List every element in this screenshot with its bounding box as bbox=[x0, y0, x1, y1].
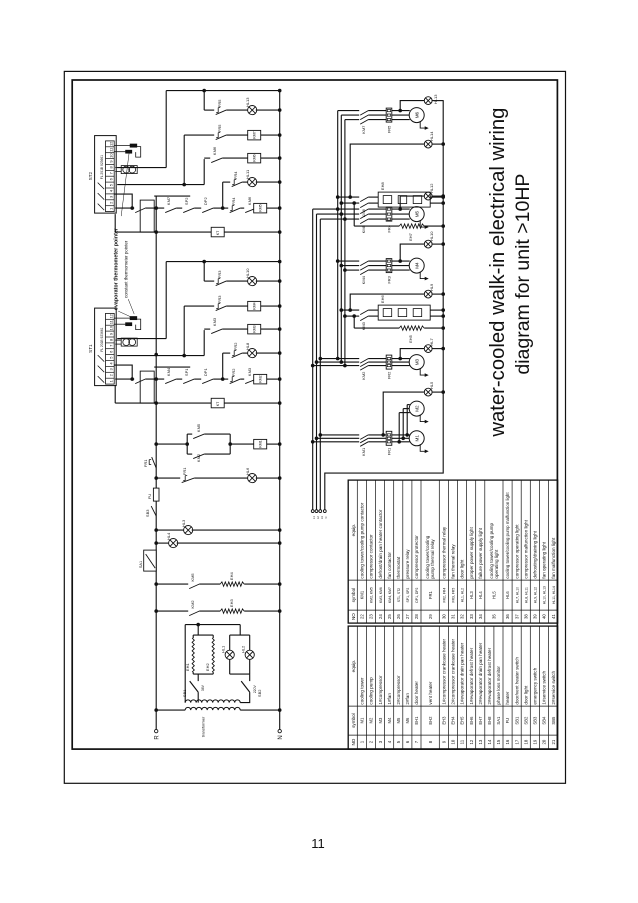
svg-text:HL1: HL1 bbox=[221, 645, 226, 653]
wire lamp loop bbox=[230, 635, 250, 674]
svg-text:KM3: KM3 bbox=[247, 367, 252, 376]
thermal relay FR3 bbox=[386, 259, 392, 273]
wire secondary to heater loops bbox=[185, 625, 240, 703]
svg-text:KM4: KM4 bbox=[166, 367, 171, 376]
wire M1 M2 branch verticals KM1 bbox=[311, 433, 386, 444]
svg-text:R: R bbox=[155, 735, 161, 740]
defrost contactor coil branch KM6 bbox=[204, 146, 280, 163]
sensor probes of ST1 (cells 10-12) bbox=[114, 317, 141, 330]
thermal relay FR1 bbox=[386, 431, 392, 445]
svg-text:EH3: EH3 bbox=[229, 599, 234, 608]
svg-text:KM4: KM4 bbox=[361, 275, 366, 284]
svg-text:220V: 220V bbox=[253, 684, 257, 693]
lamp HL6 malfunction light branch bbox=[156, 467, 280, 483]
svg-text:ST1, ST2: ST1, ST2 bbox=[397, 588, 401, 602]
label evaporator thermometer pointer bbox=[114, 227, 131, 316]
svg-text:pump thermal relay: pump thermal relay bbox=[430, 539, 435, 579]
svg-text:EH5: EH5 bbox=[408, 334, 413, 343]
contactor contacts KM7 bbox=[360, 111, 368, 134]
svg-text:25: 25 bbox=[387, 614, 392, 619]
svg-text:compressor thermal relay: compressor thermal relay bbox=[442, 526, 447, 579]
resistor EH7 drain pan heater 2 bbox=[352, 201, 443, 241]
svg-text:SP1, SP2: SP1, SP2 bbox=[406, 588, 410, 603]
svg-text:HL4: HL4 bbox=[166, 532, 171, 540]
motor M3 compressor 1 bbox=[409, 355, 429, 377]
svg-text:emergency switch: emergency switch bbox=[533, 667, 538, 704]
resistor EH1 door heater bbox=[185, 638, 194, 672]
svg-text:KM5: KM5 bbox=[196, 423, 201, 432]
lamp HL9 defrosting light 1 bbox=[348, 283, 443, 312]
motor M5 compressor 2 bbox=[409, 207, 429, 229]
sensor coil of ST2 (cells 7-8) bbox=[115, 166, 137, 174]
svg-text:SB1: SB1 bbox=[514, 716, 519, 725]
svg-text:HL10, HL13: HL10, HL13 bbox=[543, 586, 547, 604]
svg-text:DP2: DP2 bbox=[203, 197, 208, 206]
svg-text:M3: M3 bbox=[415, 358, 420, 365]
svg-text:symbol: symbol bbox=[351, 713, 356, 728]
motor M1 cooling tower bbox=[409, 431, 429, 453]
svg-text:EH4: EH4 bbox=[229, 572, 234, 581]
svg-text:defrost/drain pan heater conta: defrost/drain pan heater contactor bbox=[378, 509, 383, 578]
connector block 2# bbox=[140, 200, 154, 232]
svg-text:KM3, KM6: KM3, KM6 bbox=[379, 587, 383, 603]
svg-text:KM3: KM3 bbox=[361, 321, 366, 330]
svg-text:phase loss monitor: phase loss monitor bbox=[496, 666, 501, 705]
svg-text:FR5: FR5 bbox=[387, 125, 392, 133]
svg-text:KM7: KM7 bbox=[253, 131, 257, 138]
svg-text:HL1, HL2: HL1, HL2 bbox=[461, 588, 465, 602]
lamp HL14 defrosting light 2 bbox=[348, 131, 443, 199]
svg-text:failure power supply light: failure power supply light bbox=[478, 527, 483, 578]
svg-text:ST2: ST2 bbox=[88, 171, 93, 180]
svg-text:24: 24 bbox=[378, 614, 383, 619]
svg-text:cooling tower: cooling tower bbox=[360, 677, 365, 705]
wire M6 branch verticals bbox=[338, 111, 410, 120]
svg-text:30: 30 bbox=[442, 614, 447, 619]
svg-text:M5: M5 bbox=[396, 717, 401, 723]
svg-text:HL3: HL3 bbox=[469, 591, 474, 599]
svg-text:39: 39 bbox=[533, 614, 538, 619]
switch SB1 36V bbox=[182, 674, 205, 703]
svg-text:ST1: ST1 bbox=[88, 344, 93, 353]
fan contactor coil branch KM7 bbox=[184, 124, 280, 140]
svg-text:36V: 36V bbox=[201, 684, 205, 691]
svg-text:1#fan: 1#fan bbox=[387, 693, 392, 705]
svg-text:2#fan: 2#fan bbox=[405, 693, 410, 705]
svg-text:FR2: FR2 bbox=[387, 371, 392, 379]
svg-text:FL 201B 923661: FL 201B 923661 bbox=[100, 155, 104, 179]
transformer T1 bbox=[156, 700, 280, 737]
svg-text:HL6: HL6 bbox=[245, 467, 250, 475]
switch SB3 emergency switch on rail bbox=[145, 506, 156, 517]
svg-text:2#compressor: 2#compressor bbox=[396, 675, 401, 705]
lamp HL2 door light bbox=[241, 635, 255, 674]
svg-text:fan contactor: fan contactor bbox=[387, 552, 392, 579]
fan contactor coil branch KM4 bbox=[184, 295, 280, 311]
svg-text:1#compressor crankcase heater: 1#compressor crankcase heater bbox=[442, 639, 447, 705]
timer KT bbox=[115, 385, 280, 408]
svg-text:FR1: FR1 bbox=[182, 467, 187, 475]
contactor contacts KM4 bbox=[360, 261, 368, 284]
svg-text:EH1: EH1 bbox=[414, 716, 419, 725]
wire branch feeder 2# bbox=[117, 89, 281, 185]
fuse FU on rail bbox=[147, 488, 159, 501]
svg-text:HL5: HL5 bbox=[429, 381, 434, 389]
svg-text:HL5: HL5 bbox=[492, 591, 497, 599]
svg-text:15: 15 bbox=[496, 739, 501, 744]
timer KT bbox=[115, 214, 280, 237]
heater EH6 defrost heater 1 bbox=[378, 295, 443, 321]
svg-text:20: 20 bbox=[542, 739, 547, 744]
lamp HL10 fan operating light 1 bbox=[398, 231, 443, 263]
svg-text:evaporator thermometer pointer: evaporator thermometer pointer bbox=[114, 227, 120, 310]
motor M2 cooling pump bbox=[409, 401, 429, 423]
svg-text:SP1: SP1 bbox=[184, 368, 189, 376]
svg-text:32: 32 bbox=[460, 614, 465, 619]
svg-text:22: 22 bbox=[360, 614, 365, 619]
svg-text:KM2, KM5: KM2, KM5 bbox=[370, 587, 374, 603]
wire to motors M1 M2 bbox=[392, 405, 410, 444]
svg-text:cooling tower/cooling pump con: cooling tower/cooling pump contactor bbox=[360, 502, 365, 578]
svg-text:door light: door light bbox=[523, 685, 528, 705]
thermal relay FR5 bbox=[386, 108, 392, 122]
svg-text:10: 10 bbox=[108, 325, 113, 330]
svg-text:FR4: FR4 bbox=[233, 171, 238, 179]
wire M4 branch verticals bbox=[336, 259, 410, 272]
svg-text:FR3, FR5: FR3, FR5 bbox=[452, 588, 456, 603]
main control branch 2# bbox=[115, 196, 280, 213]
svg-text:EH3: EH3 bbox=[442, 716, 447, 725]
sensor probes of ST2 (cells 10-12) bbox=[114, 144, 141, 157]
svg-text:16: 16 bbox=[505, 739, 510, 744]
contactor contacts KM3 defrost 1 bbox=[340, 308, 379, 330]
svg-text:10: 10 bbox=[108, 153, 113, 158]
wire branch feeder 1# bbox=[117, 260, 281, 356]
resistor EH2 vent heater bbox=[205, 638, 214, 672]
motor M4 fan 1 bbox=[409, 258, 429, 280]
contact KM2 aux bbox=[156, 600, 199, 616]
motor M6 fan 2 bbox=[409, 108, 429, 130]
svg-text:equip.: equip. bbox=[351, 660, 356, 673]
resistor EH4 crankcase heater bbox=[199, 572, 280, 587]
svg-text:FR4: FR4 bbox=[231, 197, 236, 205]
svg-text:HL14: HL14 bbox=[429, 131, 434, 141]
fan malfunction lamp branch HL10 bbox=[204, 268, 280, 286]
svg-text:defrosting/draining light: defrosting/draining light bbox=[533, 530, 538, 578]
wire M5 branch verticals from bus bbox=[313, 209, 410, 219]
svg-text:2#service switch: 2#service switch bbox=[551, 670, 556, 704]
svg-text:1#service switch: 1#service switch bbox=[542, 670, 547, 704]
svg-text:SP2: SP2 bbox=[184, 197, 189, 205]
svg-text:HL7: HL7 bbox=[429, 337, 434, 345]
svg-text:11: 11 bbox=[311, 836, 325, 851]
svg-text:37: 37 bbox=[514, 614, 519, 619]
svg-text:FR5: FR5 bbox=[217, 99, 222, 107]
svg-text:1#evaporator drain pan heater: 1#evaporator drain pan heater bbox=[460, 642, 465, 704]
svg-text:SB1: SB1 bbox=[182, 689, 187, 697]
svg-text:SB4: SB4 bbox=[542, 716, 547, 725]
resistor EH3 crankcase heater bbox=[199, 599, 280, 614]
wire M3 branch verticals bbox=[311, 357, 410, 368]
svg-text:HL13: HL13 bbox=[245, 97, 250, 107]
svg-text:FR1: FR1 bbox=[143, 459, 148, 467]
thermostat ST1 terminal strip bbox=[88, 308, 116, 386]
phase loss monitor SA1 bbox=[139, 550, 156, 571]
svg-text:FR3: FR3 bbox=[217, 295, 222, 303]
lamp HL13 fan operating light 2 bbox=[398, 94, 443, 113]
svg-text:fan malfunction light: fan malfunction light bbox=[551, 537, 556, 579]
svg-text:SA1: SA1 bbox=[496, 716, 501, 725]
svg-text:HL7, HL10: HL7, HL10 bbox=[515, 587, 519, 603]
svg-text:EH2: EH2 bbox=[205, 663, 210, 672]
svg-text:KM5: KM5 bbox=[259, 204, 263, 211]
svg-text:33: 33 bbox=[469, 614, 474, 619]
svg-text:FR1: FR1 bbox=[428, 590, 433, 599]
svg-text:27: 27 bbox=[405, 614, 410, 619]
svg-text:compressor contactor: compressor contactor bbox=[369, 534, 374, 579]
thermostat ST2 terminal strip bbox=[88, 136, 116, 214]
svg-text:operating light: operating light bbox=[494, 549, 499, 579]
svg-text:KM3: KM3 bbox=[212, 317, 217, 326]
svg-text:cooling tower/cooling pump mal: cooling tower/cooling pump malfunction l… bbox=[505, 492, 510, 579]
switch SB2 220V bbox=[240, 674, 262, 703]
svg-text:KT: KT bbox=[216, 231, 220, 235]
svg-text:HL2: HL2 bbox=[241, 645, 246, 653]
svg-text:19: 19 bbox=[533, 739, 538, 744]
svg-text:12: 12 bbox=[108, 313, 113, 318]
svg-text:M4: M4 bbox=[387, 717, 392, 723]
svg-text:2#evaporator defrost heater: 2#evaporator defrost heater bbox=[487, 647, 492, 704]
svg-text:40: 40 bbox=[542, 614, 547, 619]
node N supply terminal bbox=[278, 729, 284, 739]
svg-text:21: 21 bbox=[551, 739, 556, 744]
svg-text:KM2: KM2 bbox=[259, 375, 263, 382]
svg-text:SB2: SB2 bbox=[257, 689, 262, 697]
svg-text:proper power supply light: proper power supply light bbox=[469, 527, 474, 579]
svg-text:HL10: HL10 bbox=[245, 268, 250, 278]
svg-text:KM2: KM2 bbox=[190, 600, 195, 609]
svg-text:23: 23 bbox=[369, 614, 374, 619]
svg-text:13: 13 bbox=[478, 739, 483, 744]
svg-text:12: 12 bbox=[108, 141, 113, 146]
svg-text:EH8: EH8 bbox=[380, 182, 385, 191]
wire sub bus 3 bbox=[344, 120, 346, 366]
svg-text:vent heater: vent heater bbox=[428, 681, 433, 704]
svg-text:door/vent heater switch: door/vent heater switch bbox=[514, 657, 519, 705]
svg-text:N: N bbox=[324, 517, 328, 519]
svg-text:35: 35 bbox=[492, 614, 497, 619]
svg-text:M2: M2 bbox=[369, 717, 374, 723]
svg-text:HL11, HL14: HL11, HL14 bbox=[552, 586, 556, 604]
svg-text:HL13: HL13 bbox=[433, 94, 438, 104]
svg-text:SB2: SB2 bbox=[523, 716, 528, 725]
node R supply terminal bbox=[155, 729, 161, 739]
contact KM5 aux bbox=[156, 573, 199, 589]
svg-text:thermostat: thermostat bbox=[396, 556, 401, 578]
svg-text:constant thermometer pointer: constant thermometer pointer bbox=[124, 240, 129, 298]
svg-text:KM3: KM3 bbox=[253, 325, 257, 332]
lamp HL4 failure power supply light bbox=[156, 532, 280, 548]
svg-text:FR2: FR2 bbox=[231, 368, 236, 376]
svg-text:EH6: EH6 bbox=[380, 295, 385, 304]
svg-text:10: 10 bbox=[451, 739, 456, 744]
lamp HL1 door light bbox=[221, 635, 235, 674]
svg-text:26: 26 bbox=[396, 614, 401, 619]
svg-text:door light: door light bbox=[460, 559, 465, 579]
connector block 1# bbox=[140, 371, 154, 403]
contactor coil KM1 branch with parallel contacts KM2 KM5 bbox=[156, 423, 280, 462]
wire strip cell4 to main branch 1# bbox=[114, 365, 132, 379]
svg-text:EH6: EH6 bbox=[469, 716, 474, 725]
resistor EH5 drain pan heater 1 bbox=[352, 314, 443, 343]
svg-text:KM7: KM7 bbox=[361, 125, 366, 134]
svg-text:HL8, HL11: HL8, HL11 bbox=[524, 587, 528, 603]
svg-text:KM1: KM1 bbox=[360, 590, 365, 599]
svg-text:HL11: HL11 bbox=[245, 169, 250, 179]
svg-text:41: 41 bbox=[551, 614, 556, 619]
svg-text:NO: NO bbox=[351, 613, 356, 620]
svg-text:HL9, HL12: HL9, HL12 bbox=[534, 587, 538, 603]
svg-text:KM2: KM2 bbox=[196, 453, 201, 462]
svg-text:KM1: KM1 bbox=[259, 440, 263, 447]
wire sub bus 1 bbox=[337, 111, 339, 360]
component legend table bbox=[348, 626, 557, 749]
contactor contacts KM2 bbox=[360, 359, 368, 380]
lamp HL3 proper power supply light bbox=[156, 519, 280, 535]
svg-text:2#compressor crankcase heater: 2#compressor crankcase heater bbox=[451, 639, 456, 705]
svg-text:FU: FU bbox=[147, 494, 152, 499]
lamp branch HL8 compressor malfunction bbox=[223, 342, 280, 379]
svg-text:KM6: KM6 bbox=[361, 208, 366, 217]
svg-text:HL4: HL4 bbox=[478, 591, 483, 599]
svg-text:31: 31 bbox=[451, 614, 456, 619]
svg-text:HL8: HL8 bbox=[245, 342, 250, 350]
svg-text:HL9: HL9 bbox=[429, 283, 434, 291]
svg-text:NO: NO bbox=[351, 738, 356, 745]
thermal contact FR1 on rail bbox=[143, 457, 156, 468]
main control branch 1# bbox=[115, 367, 280, 384]
svg-text:FR1: FR1 bbox=[387, 447, 392, 455]
svg-text:EH5: EH5 bbox=[460, 716, 465, 725]
title bbox=[487, 108, 534, 438]
wire heater loop bbox=[193, 635, 213, 674]
thermal relay FR4 bbox=[386, 207, 392, 221]
svg-text:KM4, KM7: KM4, KM7 bbox=[388, 587, 392, 603]
svg-text:M5: M5 bbox=[415, 210, 420, 217]
svg-text:KM4: KM4 bbox=[253, 302, 257, 309]
svg-text:HL6: HL6 bbox=[505, 591, 510, 599]
svg-text:FR3: FR3 bbox=[387, 275, 392, 283]
wire N rail bbox=[279, 90, 281, 729]
svg-text:HL12: HL12 bbox=[429, 183, 434, 193]
wire strip stub 1# bbox=[154, 366, 190, 368]
contactor contacts KM5 bbox=[360, 209, 368, 233]
svg-text:M6: M6 bbox=[405, 717, 410, 723]
svg-text:17: 17 bbox=[514, 739, 519, 744]
svg-text:KT: KT bbox=[216, 402, 220, 406]
svg-text:fan thermal relay: fan thermal relay bbox=[451, 544, 456, 579]
svg-text:equip.: equip. bbox=[351, 524, 356, 537]
svg-text:M4: M4 bbox=[415, 262, 420, 269]
heater EH8 defrost heater 2 bbox=[378, 182, 443, 208]
svg-text:EH8: EH8 bbox=[487, 716, 492, 725]
svg-text:symbol: symbol bbox=[351, 588, 356, 603]
svg-text:KM5: KM5 bbox=[190, 573, 195, 582]
defrost contactor coil branch KM3 bbox=[204, 317, 280, 334]
svg-text:compressor operating light: compressor operating light bbox=[514, 524, 519, 579]
svg-text:FR2: FR2 bbox=[233, 342, 238, 350]
label constant thermometer pointer bbox=[121, 152, 134, 314]
thermal relay FR2 bbox=[386, 355, 392, 369]
svg-text:11: 11 bbox=[460, 739, 465, 744]
svg-text:SA1: SA1 bbox=[139, 561, 143, 568]
svg-text:FR2, FR4: FR2, FR4 bbox=[443, 588, 447, 603]
svg-text:M6: M6 bbox=[415, 111, 420, 118]
svg-text:EH1: EH1 bbox=[185, 663, 190, 672]
contactor contacts KM6 defrost 2 bbox=[336, 195, 378, 217]
contactor contacts KM1 bbox=[360, 435, 368, 456]
svg-text:KM6: KM6 bbox=[212, 146, 217, 155]
wire three-phase bus L2 bbox=[316, 214, 318, 510]
svg-text:transformer: transformer bbox=[201, 716, 206, 737]
svg-text:HL3: HL3 bbox=[181, 519, 186, 527]
lamp HL12 compressor operating light 2 bbox=[398, 183, 443, 211]
svg-text:KM1: KM1 bbox=[361, 447, 366, 456]
svg-text:1#compressor: 1#compressor bbox=[378, 675, 383, 705]
svg-text:DP1, DP2: DP1, DP2 bbox=[415, 587, 419, 602]
svg-text:14: 14 bbox=[487, 739, 492, 744]
svg-text:EH2: EH2 bbox=[428, 716, 433, 725]
svg-text:1#evaporator defrost heater: 1#evaporator defrost heater bbox=[469, 647, 474, 704]
svg-text:compressor protector: compressor protector bbox=[414, 535, 419, 579]
svg-text:HL10: HL10 bbox=[429, 231, 434, 241]
svg-text:M1: M1 bbox=[360, 717, 365, 723]
wire three-phase bus L1 bbox=[312, 209, 314, 510]
lamp HL7 compressor operating light bbox=[398, 337, 443, 360]
svg-text:EH7: EH7 bbox=[478, 716, 483, 725]
svg-text:38: 38 bbox=[523, 614, 528, 619]
svg-text:SB3: SB3 bbox=[145, 509, 150, 517]
svg-text:FL 201B 923661: FL 201B 923661 bbox=[100, 327, 104, 351]
svg-text:12: 12 bbox=[469, 739, 474, 744]
svg-text:M3: M3 bbox=[378, 717, 383, 723]
svg-text:DP1: DP1 bbox=[203, 368, 208, 377]
svg-text:fan operating light: fan operating light bbox=[542, 541, 547, 578]
svg-text:2#evaporator drain pan heater: 2#evaporator drain pan heater bbox=[478, 642, 483, 704]
svg-text:M1: M1 bbox=[415, 435, 420, 442]
svg-text:FU: FU bbox=[505, 718, 510, 724]
svg-text:EH4: EH4 bbox=[451, 716, 456, 725]
wire strip cell4 to main branch 2# bbox=[114, 194, 132, 208]
svg-text:KM6: KM6 bbox=[247, 196, 252, 205]
svg-text:diagram for unit >10HP: diagram for unit >10HP bbox=[512, 174, 534, 375]
wire sub bus 2 bbox=[340, 115, 342, 362]
svg-text:28: 28 bbox=[414, 614, 419, 619]
svg-text:compressor malfunction light: compressor malfunction light bbox=[523, 519, 528, 578]
svg-text:FR5: FR5 bbox=[217, 124, 222, 132]
svg-text:29: 29 bbox=[428, 614, 433, 619]
svg-text:34: 34 bbox=[478, 614, 483, 619]
svg-text:KM7: KM7 bbox=[166, 196, 171, 205]
svg-text:cooling pump: cooling pump bbox=[369, 677, 374, 705]
svg-text:door heater: door heater bbox=[414, 681, 419, 705]
wire R rail bbox=[155, 196, 157, 729]
svg-text:36: 36 bbox=[505, 614, 510, 619]
fan malfunction lamp branch HL13 bbox=[204, 97, 280, 115]
lamp branch HL11 compressor malfunction bbox=[223, 169, 280, 208]
svg-text:M2: M2 bbox=[415, 405, 420, 412]
svg-text:EH7: EH7 bbox=[408, 232, 413, 241]
